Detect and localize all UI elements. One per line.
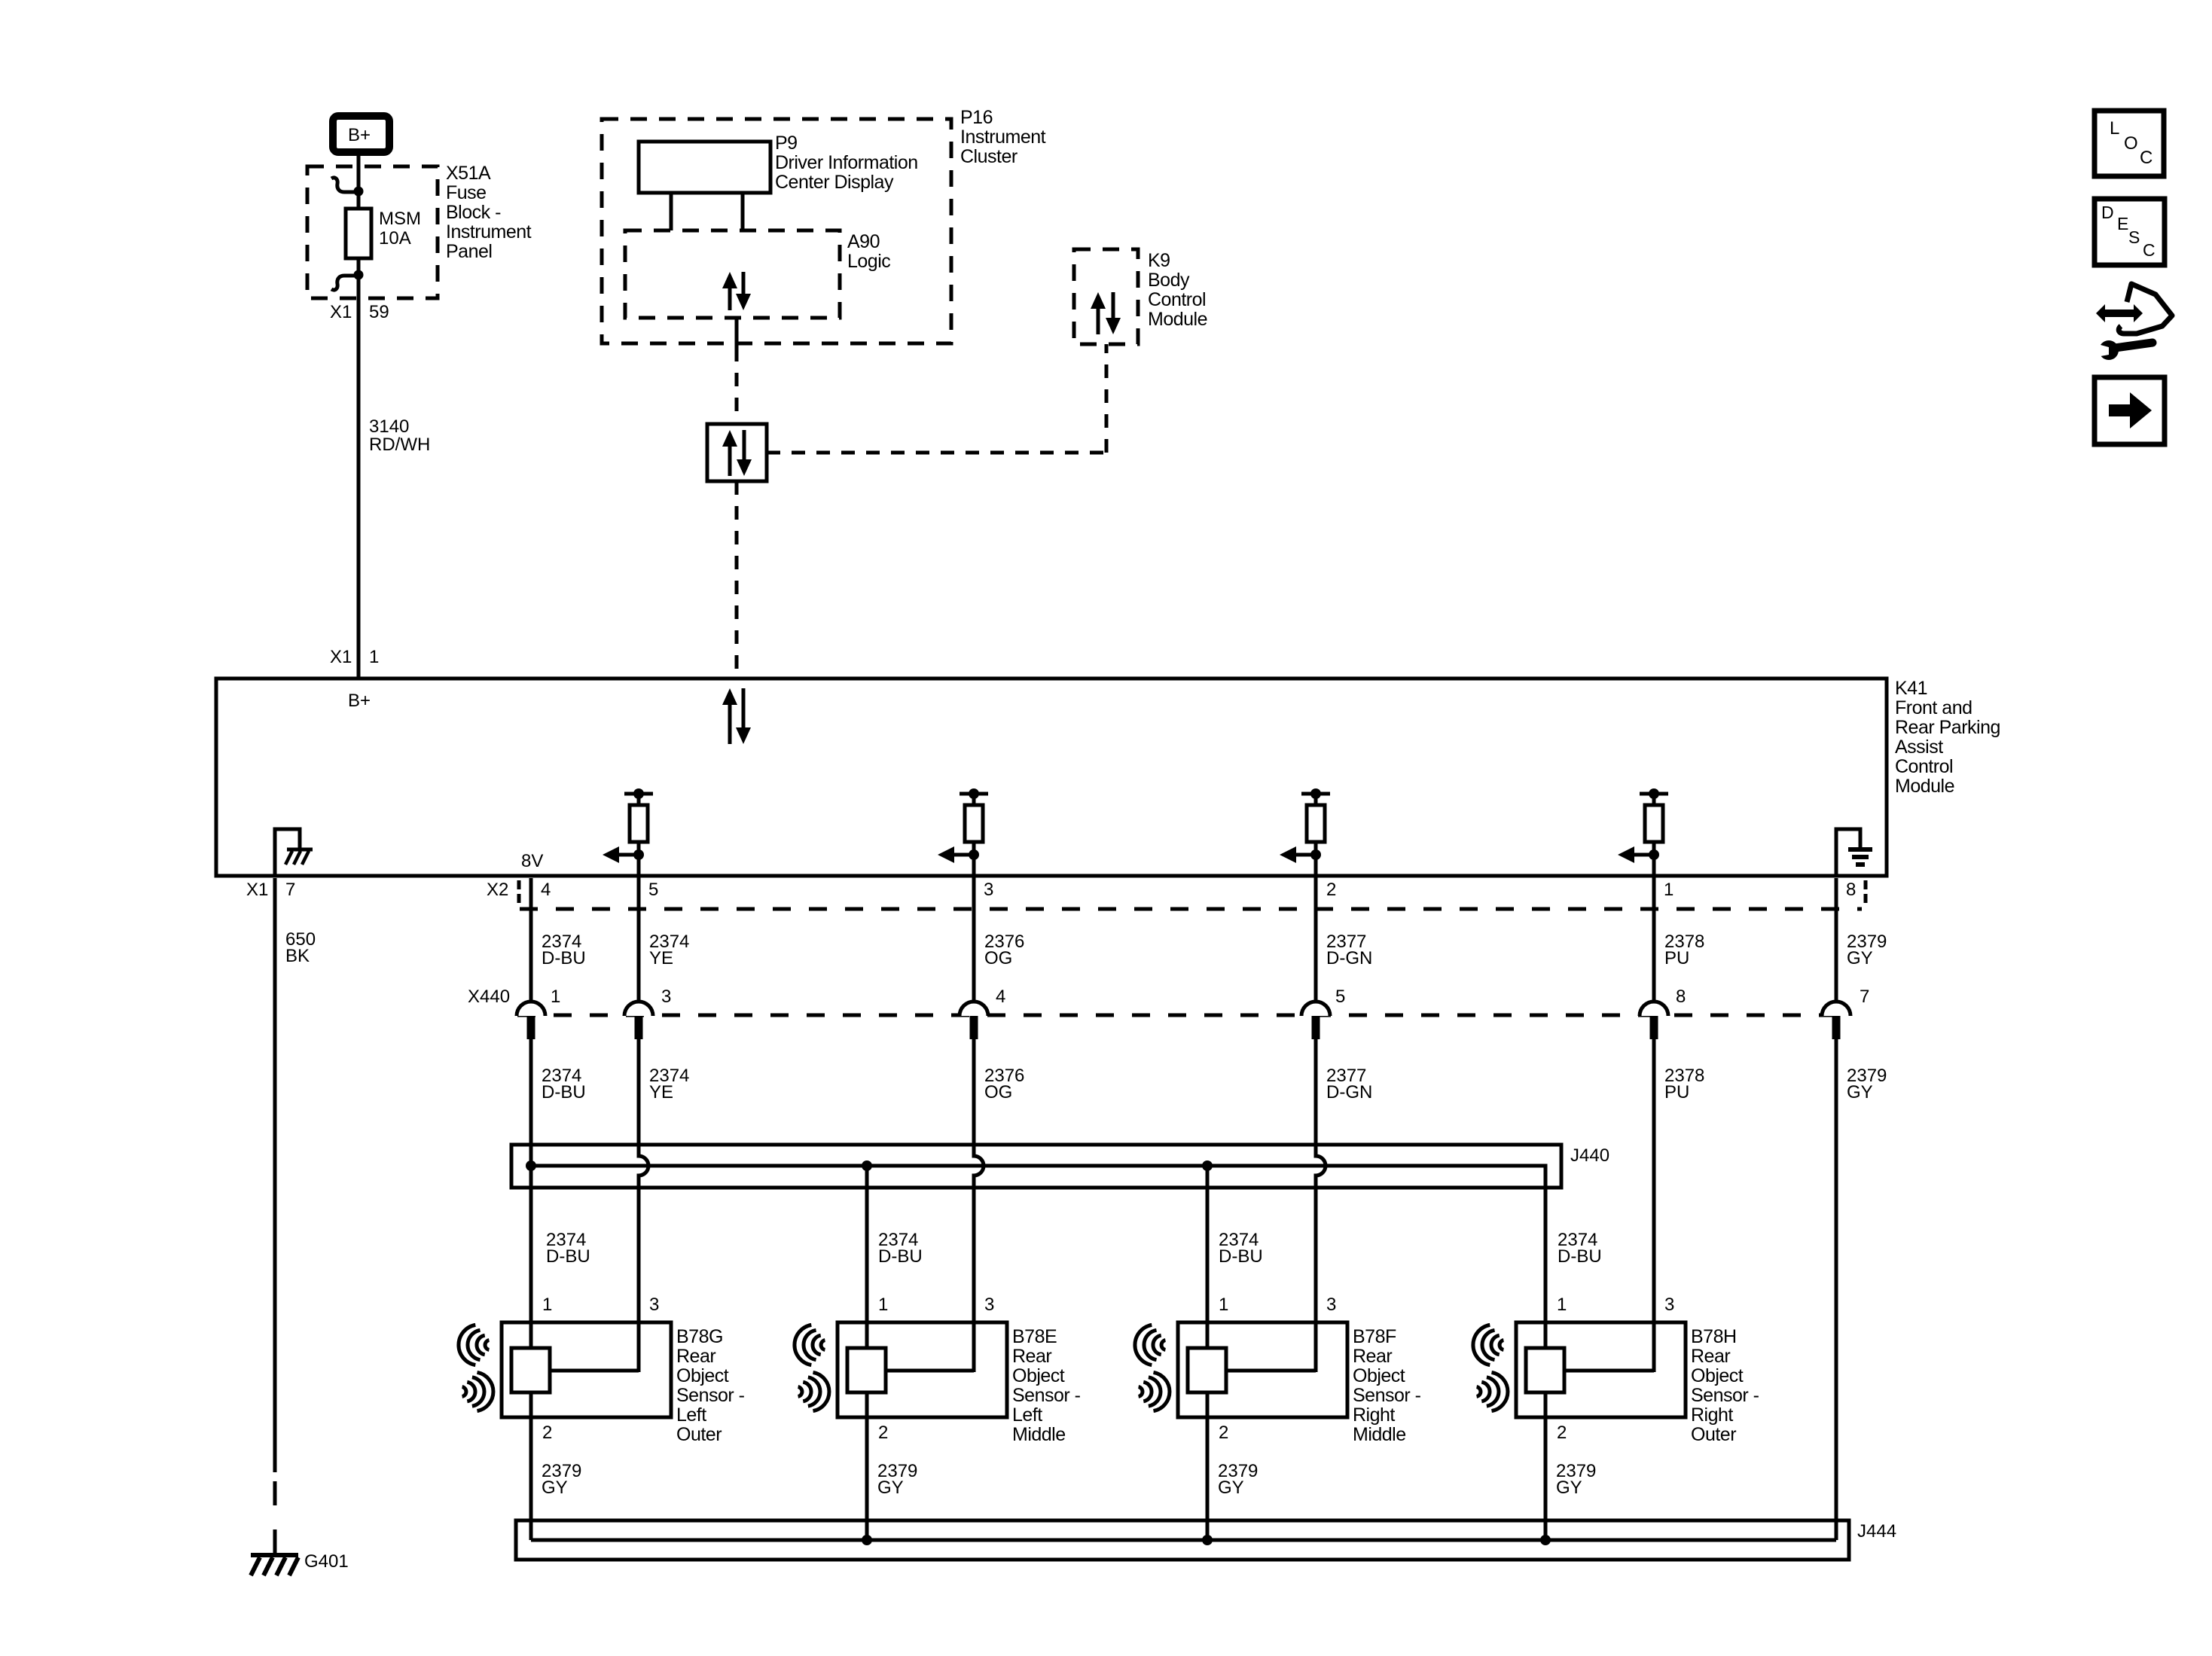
wire 2374 D-BU X440-1 down through J440 to sensor B78G <box>529 1039 533 1392</box>
svg-text:E: E <box>2117 214 2128 233</box>
module K41 Front and Rear Parking Assist Control Module <box>216 679 1887 876</box>
svg-text:Module: Module <box>1148 309 1207 330</box>
svg-text:Right: Right <box>1691 1404 1733 1426</box>
wire 2379 GY X440-7 down to J444 <box>1835 1039 1838 1540</box>
svg-text:Instrument: Instrument <box>960 127 1046 148</box>
svg-text:OG: OG <box>984 948 1012 968</box>
connector X2 dashed row <box>520 907 1862 911</box>
fuse clip bottom <box>331 270 364 291</box>
label A90 Logic <box>847 231 890 272</box>
svg-text:5: 5 <box>1335 987 1345 1007</box>
label B78E Rear Object Sensor <box>1012 1326 1081 1445</box>
svg-text:X1: X1 <box>330 302 352 322</box>
svg-text:Left: Left <box>676 1404 706 1426</box>
wire 2379 GY B78H pin 2 to J444 <box>1544 1392 1548 1540</box>
connector X440 terminal at x=2196 <box>1640 1002 1668 1039</box>
svg-text:YE: YE <box>649 1082 673 1102</box>
label wire 2374 YE <box>649 932 689 968</box>
svg-text:P16: P16 <box>960 107 993 128</box>
svg-text:3140: 3140 <box>369 416 409 437</box>
svg-text:3: 3 <box>984 880 993 900</box>
junction dot J440 at 8V input <box>526 1160 536 1171</box>
svg-text:2: 2 <box>1326 880 1336 900</box>
svg-text:Control: Control <box>1148 289 1206 310</box>
svg-text:Rear: Rear <box>1012 1346 1051 1367</box>
serial data gateway node <box>707 424 767 481</box>
label wire 2379 GY below B78F <box>1218 1461 1258 1498</box>
connector X440 terminal at x=705 <box>517 1002 545 1039</box>
label wire 2379 GY below B78H <box>1556 1461 1596 1498</box>
svg-text:59: 59 <box>369 302 389 322</box>
svg-text:S: S <box>2128 227 2140 247</box>
junction block J444 <box>516 1520 1849 1560</box>
svg-text:K9: K9 <box>1148 250 1170 271</box>
svg-text:GY: GY <box>1847 948 1873 968</box>
wire P9 leg left <box>670 193 673 230</box>
pin labels below K41: X1 7 and X2 4 5 3 2 1 8 <box>246 880 1856 900</box>
svg-text:L: L <box>2110 118 2119 139</box>
wire 2379 GY B78E pin 2 to J444 <box>865 1392 869 1540</box>
svg-text:10A: 10A <box>379 228 411 249</box>
svg-text:GY: GY <box>1556 1478 1582 1498</box>
svg-text:BK: BK <box>285 946 310 966</box>
wire P9 leg right <box>741 193 745 230</box>
serial data dashed link gateway to K9 (horizontal) <box>767 451 1106 455</box>
label wire 2377 D-GN below X440 <box>1326 1066 1372 1102</box>
svg-text:1: 1 <box>1219 1295 1228 1315</box>
wire 2377 D-GN X440-5 to sensor B78F pin 3 (hops over J440 bus) <box>1316 1039 1326 1372</box>
svg-text:5: 5 <box>648 880 658 900</box>
svg-text:Body: Body <box>1148 270 1190 291</box>
instrument cluster P16 dashed box <box>602 119 951 343</box>
svg-text:J444: J444 <box>1857 1521 1896 1542</box>
label wire 2376 OG <box>984 932 1024 968</box>
svg-text:1: 1 <box>369 647 379 667</box>
svg-text:8V: 8V <box>521 851 543 871</box>
wire 650 BK dashed section to G401 <box>273 1481 277 1553</box>
ground G401 chassis ground symbol <box>251 1555 298 1575</box>
label wire 2378 PU below X440 <box>1664 1066 1704 1102</box>
svg-text:2: 2 <box>1557 1423 1567 1443</box>
label K9 Body Control Module <box>1148 250 1207 330</box>
wire 2376 OG X440-4 to sensor B78E pin 3 (hops over J440 bus) <box>974 1039 984 1372</box>
svg-text:D-GN: D-GN <box>1326 1082 1372 1102</box>
svg-text:1: 1 <box>551 987 560 1007</box>
svg-text:B78F: B78F <box>1353 1326 1396 1347</box>
svg-text:Front and: Front and <box>1895 697 1972 718</box>
svg-text:P9: P9 <box>775 133 798 154</box>
label wire 2376 OG below X440 <box>984 1066 1024 1102</box>
wire A90 to P16 edge <box>735 318 739 348</box>
svg-text:Middle: Middle <box>1353 1424 1406 1445</box>
connector X440 dashed row <box>517 1014 1854 1017</box>
pull-up resistor and signal arrow for pin X2-5 inside K41 <box>603 788 653 878</box>
svg-text:D-GN: D-GN <box>1326 948 1372 968</box>
ground trace pin X1-7 inside K41 <box>275 829 300 876</box>
label wire 2379 GY below B78E <box>877 1461 917 1498</box>
svg-text:D-BU: D-BU <box>1558 1246 1602 1267</box>
label wire 2374 YE below X440 <box>649 1066 689 1102</box>
svg-text:PU: PU <box>1664 1082 1689 1102</box>
svg-text:PU: PU <box>1664 948 1689 968</box>
sonar wave icon of B78H <box>1473 1325 1508 1410</box>
svg-text:Left: Left <box>1012 1404 1042 1426</box>
junction dot J444 from B78E <box>862 1535 872 1545</box>
fuse MSM 10A <box>346 209 371 258</box>
svg-text:Driver Information: Driver Information <box>775 152 918 173</box>
svg-text:Rear: Rear <box>1353 1346 1392 1367</box>
connector label X1 pin 59 <box>330 302 389 322</box>
svg-text:G401: G401 <box>304 1551 349 1572</box>
label B78H Rear Object Sensor <box>1691 1326 1759 1445</box>
svg-text:Object: Object <box>1012 1365 1065 1386</box>
svg-text:D-BU: D-BU <box>542 1082 586 1102</box>
svg-text:3: 3 <box>649 1295 659 1315</box>
connector X440 terminal at x=848 <box>624 1002 653 1039</box>
fuse block X51A dashed box <box>307 166 438 298</box>
connector label X1 pin 1 <box>330 647 379 667</box>
power feed B+ <box>333 116 389 152</box>
label B78G Rear Object Sensor <box>676 1326 745 1445</box>
svg-text:B+: B+ <box>348 125 371 145</box>
label wire 2377 D-GN <box>1326 932 1372 968</box>
wire 2378 PU X440-8 to sensor B78H pin 3 <box>1652 1039 1656 1372</box>
svg-text:B78H: B78H <box>1691 1326 1737 1347</box>
svg-text:Object: Object <box>1353 1365 1405 1386</box>
rear object sensor B78H <box>1516 1322 1686 1417</box>
svg-text:Sensor -: Sensor - <box>1353 1385 1421 1406</box>
label wire 3140 RD/WH <box>369 416 430 455</box>
label wire 2379 GY below X440 <box>1847 1066 1887 1102</box>
label B78F Rear Object Sensor <box>1353 1326 1421 1445</box>
svg-text:D-BU: D-BU <box>878 1246 923 1267</box>
pull-up resistor and signal arrow for pin X2-2 inside K41 <box>1280 788 1330 878</box>
svg-text:K41: K41 <box>1895 678 1927 699</box>
wire 650 BK from pin X1-7 <box>273 878 277 1472</box>
J440 internal bus wire <box>531 1166 1545 1348</box>
svg-text:Block -: Block - <box>446 202 501 223</box>
wire J440 tap down to sensor B78F pin 1 <box>1206 1166 1210 1392</box>
label wire 2374 D-BU <box>542 932 586 968</box>
serial data dashed link gateway to K41 <box>735 481 739 679</box>
svg-text:Assist: Assist <box>1895 737 1943 758</box>
icon forward arrow box <box>2095 377 2165 444</box>
earth ground trace pin X2-8 inside K41 <box>1836 829 1860 876</box>
serial data arrows in gateway node <box>722 430 752 476</box>
svg-text:Center Display: Center Display <box>775 172 894 193</box>
svg-text:B+: B+ <box>348 691 371 711</box>
svg-text:B78E: B78E <box>1012 1326 1057 1347</box>
svg-text:8: 8 <box>1676 987 1686 1007</box>
connector X2 end ticks <box>519 880 1866 903</box>
svg-text:Fuse: Fuse <box>446 182 487 203</box>
pin labels of B78E <box>878 1295 994 1443</box>
svg-text:C: C <box>2140 148 2153 168</box>
svg-text:B78G: B78G <box>676 1326 723 1347</box>
svg-text:2: 2 <box>1219 1423 1228 1443</box>
junction dot J440 tap to B78E <box>862 1160 872 1171</box>
label wire 2379 GY <box>1847 932 1887 968</box>
svg-text:MSM: MSM <box>379 209 421 229</box>
junction dot J444 from B78F <box>1202 1535 1213 1545</box>
serial data arrows in K9 <box>1091 292 1121 334</box>
svg-text:7: 7 <box>1860 987 1869 1007</box>
svg-text:YE: YE <box>649 948 673 968</box>
svg-text:X2: X2 <box>487 880 508 900</box>
connector X440 terminal at x=2438 <box>1822 1002 1850 1039</box>
svg-text:Panel: Panel <box>446 241 492 262</box>
label MSM 10A <box>379 209 421 249</box>
label wire 2374 D-BU below J440 <box>878 1230 923 1267</box>
svg-text:Outer: Outer <box>676 1424 722 1445</box>
svg-text:Outer: Outer <box>1691 1424 1736 1445</box>
svg-text:3: 3 <box>984 1295 994 1315</box>
svg-text:3: 3 <box>1664 1295 1674 1315</box>
svg-text:2: 2 <box>542 1423 552 1443</box>
svg-text:Rear: Rear <box>676 1346 715 1367</box>
fuse clip top <box>331 178 364 197</box>
label wire 2379 GY below B78G <box>542 1461 581 1498</box>
svg-text:D-BU: D-BU <box>546 1246 590 1267</box>
sonar wave icon of B78E <box>795 1325 829 1410</box>
svg-text:1: 1 <box>878 1295 888 1315</box>
svg-text:GY: GY <box>1218 1478 1244 1498</box>
svg-text:X440: X440 <box>468 987 510 1007</box>
serial data arrows inside K41 <box>722 688 751 744</box>
svg-text:RD/WH: RD/WH <box>369 435 430 455</box>
label X51A Fuse Block - Instrument Panel <box>446 163 532 262</box>
icon LOC box <box>2095 111 2164 176</box>
label wire 650 BK <box>285 929 316 966</box>
pull-up resistor and signal arrow for pin X2-3 inside K41 <box>938 788 988 878</box>
svg-text:D: D <box>2101 203 2114 222</box>
svg-text:2: 2 <box>878 1423 888 1443</box>
wire 2379 GY B78F pin 2 to J444 <box>1206 1392 1210 1540</box>
serial data arrows in A90 <box>722 272 751 310</box>
wire 3140 RD/WH fuse to K41 <box>357 258 361 679</box>
svg-text:1: 1 <box>542 1295 552 1315</box>
junction dot J444 from B78H <box>1540 1535 1551 1545</box>
svg-text:A90: A90 <box>847 231 880 252</box>
svg-text:Sensor -: Sensor - <box>1012 1385 1081 1406</box>
label wire 2374 D-BU below J440 <box>1219 1230 1263 1267</box>
wire B+ to fuse <box>357 152 361 209</box>
label wire 2374 D-BU below J440 <box>546 1230 590 1267</box>
pin labels of B78H <box>1557 1295 1674 1443</box>
label P16 Instrument Cluster <box>960 107 1046 167</box>
label K41 Front and Rear Parking Assist Control Module <box>1895 678 2000 797</box>
serial data dashed link P16 to gateway node <box>735 348 739 424</box>
svg-text:X51A: X51A <box>446 163 491 184</box>
label wire 2374 D-BU below J440 <box>1558 1230 1602 1267</box>
svg-text:Rear: Rear <box>1691 1346 1730 1367</box>
svg-text:D-BU: D-BU <box>542 948 586 968</box>
rear object sensor B78F <box>1178 1322 1347 1417</box>
svg-text:Control: Control <box>1895 756 1953 777</box>
svg-text:Right: Right <box>1353 1404 1395 1426</box>
wire 2379 GY B78G pin 2 to J444 <box>529 1392 533 1540</box>
display P9 <box>639 142 770 193</box>
svg-text:C: C <box>2143 240 2156 260</box>
svg-text:Rear Parking: Rear Parking <box>1895 717 2000 738</box>
svg-text:Instrument: Instrument <box>446 221 532 242</box>
svg-text:1: 1 <box>1557 1295 1567 1315</box>
wires from K41/X2 down to connector X440 <box>531 878 1836 1015</box>
svg-text:8: 8 <box>1846 880 1856 900</box>
svg-text:O: O <box>2124 133 2138 154</box>
svg-text:3: 3 <box>661 987 671 1007</box>
svg-text:Object: Object <box>676 1365 729 1386</box>
icon service/repair (double arrow, harness outline, wrench) <box>2092 284 2172 360</box>
svg-text:J440: J440 <box>1570 1145 1609 1166</box>
pin labels of B78G <box>542 1295 659 1443</box>
pull-up resistor and signal arrow for pin X2-1 inside K41 <box>1618 788 1668 878</box>
earth ground symbol inside K41 <box>1848 849 1872 865</box>
svg-text:4: 4 <box>996 987 1005 1007</box>
connector X440 pin numbers <box>551 987 1869 1007</box>
svg-text:Object: Object <box>1691 1365 1744 1386</box>
svg-text:GY: GY <box>877 1478 904 1498</box>
logic block A90 dashed box <box>625 230 840 318</box>
label wire 2374 D-BU below X440 <box>542 1066 586 1102</box>
svg-text:4: 4 <box>541 880 551 900</box>
label P9 Driver Information Center Display <box>775 133 918 193</box>
svg-text:GY: GY <box>1847 1082 1873 1102</box>
svg-text:GY: GY <box>542 1478 568 1498</box>
label wire 2378 PU <box>1664 932 1704 968</box>
svg-text:X1: X1 <box>246 880 268 900</box>
svg-text:X1: X1 <box>330 647 352 667</box>
pin labels of B78F <box>1219 1295 1336 1443</box>
J444 internal bus wire <box>531 1539 1836 1542</box>
svg-text:Cluster: Cluster <box>960 146 1018 167</box>
svg-text:Sensor -: Sensor - <box>676 1385 745 1406</box>
connector X440 terminal at x=1293 <box>960 1002 988 1039</box>
svg-text:Middle: Middle <box>1012 1424 1066 1445</box>
svg-text:1: 1 <box>1664 880 1673 900</box>
body control module K9 dashed box <box>1074 249 1138 344</box>
chassis ground symbol inside K41 <box>285 849 313 865</box>
svg-text:7: 7 <box>285 880 295 900</box>
junction block J440 <box>511 1145 1561 1188</box>
wire 2374 YE X440-3 to sensor B78G pin 3 (hops over J440 bus) <box>639 1039 648 1372</box>
svg-text:Logic: Logic <box>847 251 890 272</box>
rear object sensor B78E <box>838 1322 1007 1417</box>
wire J440 tap down to sensor B78E pin 1 <box>865 1166 869 1392</box>
serial data dashed link gateway to K9 (vertical) <box>1105 344 1109 453</box>
svg-text:Sensor -: Sensor - <box>1691 1385 1759 1406</box>
sonar wave icon of B78G <box>459 1325 493 1410</box>
svg-text:3: 3 <box>1326 1295 1336 1315</box>
junction dot J440 tap to B78F <box>1202 1160 1213 1171</box>
svg-text:D-BU: D-BU <box>1219 1246 1263 1267</box>
rear object sensor B78G <box>502 1322 671 1417</box>
icon DESC box <box>2095 199 2165 265</box>
svg-text:Module: Module <box>1895 776 1954 797</box>
connector X440 terminal at x=1747 <box>1301 1002 1330 1039</box>
sonar wave icon of B78F <box>1135 1325 1170 1410</box>
svg-text:OG: OG <box>984 1082 1012 1102</box>
